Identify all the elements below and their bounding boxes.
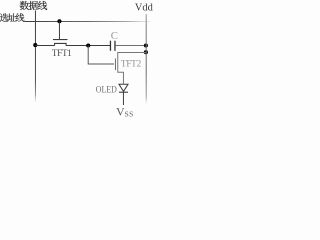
node: junction dot on Vdd rail (capacitor) bbox=[144, 43, 148, 47]
capacitor C right plate bbox=[114, 41, 116, 51]
transistor TFT2 channel and source wire to Vdd rail bbox=[118, 52, 146, 84]
diode OLED cathode bar bbox=[119, 91, 128, 93]
svg-text:OLED: OLED bbox=[96, 85, 117, 96]
svg-text:Vdd: Vdd bbox=[135, 3, 154, 14]
node: junction dot on Vdd rail (TFT2 source) bbox=[144, 50, 148, 54]
node: junction dot at TFT2-branch bbox=[86, 43, 90, 47]
wire: TFT1 drain to capacitor C bbox=[66, 45, 110, 47]
svg-text:TFT2: TFT2 bbox=[121, 60, 142, 70]
transistor TFT1 gate bar bbox=[53, 39, 68, 41]
wire: OLED cathode to Vss bbox=[122, 92, 124, 105]
capacitor C left plate bbox=[109, 41, 111, 51]
wire: storage node branch down to TFT2 gate bbox=[88, 46, 114, 64]
transistor TFT2 gate bar bbox=[114, 59, 116, 71]
wire: Vdd rail vertical bbox=[145, 14, 147, 104]
node: junction dot on address line bbox=[57, 19, 61, 23]
transistor TFT1 channel (source-drain electrode) bbox=[55, 43, 67, 45]
svg-text:C: C bbox=[111, 30, 118, 42]
wire: data line to TFT1 source bbox=[35, 45, 54, 47]
wire: address line horizontal bbox=[25, 20, 151, 22]
svg-text:VSS: VSS bbox=[116, 104, 134, 118]
svg-text:TFT1: TFT1 bbox=[52, 49, 72, 59]
node: junction dot on data line bbox=[33, 43, 37, 47]
wire: capacitor right plate to Vdd rail bbox=[116, 45, 147, 47]
label 选址线 (address line) bbox=[0, 13, 24, 22]
wire: TFT1 gate lead bbox=[58, 21, 60, 39]
diode OLED anode triangle bbox=[119, 84, 128, 91]
label 数据线 (data line) bbox=[20, 1, 47, 10]
wire: data line vertical bbox=[34, 11, 36, 103]
